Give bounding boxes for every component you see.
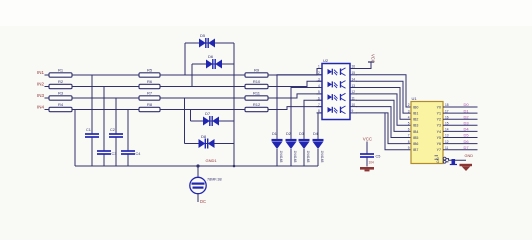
svg-text:D7: D7 bbox=[464, 145, 470, 150]
svg-text:R7: R7 bbox=[147, 90, 153, 95]
svg-text:Y4: Y4 bbox=[437, 130, 441, 134]
svg-text:Y2: Y2 bbox=[437, 118, 441, 122]
diode D6 bbox=[206, 60, 213, 69]
svg-text:14: 14 bbox=[352, 77, 356, 81]
wire loop right vertical bbox=[233, 43, 235, 166]
wire U2 pin10 to U1 bbox=[356, 107, 411, 138]
svg-text:IN2: IN2 bbox=[37, 82, 45, 87]
svg-text:IB0: IB0 bbox=[413, 105, 418, 109]
U1 right pin 11 bbox=[443, 149, 478, 151]
U1 right pin 18 bbox=[443, 106, 478, 108]
wire row1 seg2 bbox=[160, 74, 245, 76]
wire U1 row8 feed bbox=[385, 113, 411, 150]
resistor R2 bbox=[49, 84, 72, 88]
wire U2 pin12 to U1 bbox=[356, 94, 411, 125]
IC U1 body bbox=[411, 102, 443, 164]
svg-text:13: 13 bbox=[445, 134, 449, 138]
svg-text:C5: C5 bbox=[376, 155, 381, 159]
wire U2 pin9 to U1 bbox=[356, 113, 411, 144]
svg-text:12: 12 bbox=[352, 90, 356, 94]
capacitor C2 bbox=[109, 133, 123, 135]
svg-text:2: 2 bbox=[318, 71, 320, 75]
svg-text:D6: D6 bbox=[464, 139, 470, 144]
svg-text:9: 9 bbox=[408, 146, 410, 150]
U2 channel 2 symbol bbox=[328, 82, 333, 88]
wire rail left end drop bbox=[74, 110, 76, 167]
wire anode ch4 bbox=[268, 107, 322, 110]
svg-text:D1: D1 bbox=[464, 108, 470, 113]
ground right symbol bbox=[460, 164, 473, 166]
svg-text:5: 5 bbox=[408, 122, 410, 126]
wire U2 pin15 to U1 bbox=[356, 75, 411, 107]
svg-text:4: 4 bbox=[318, 84, 320, 88]
svg-text:Y6: Y6 bbox=[437, 142, 441, 146]
svg-text:Y5: Y5 bbox=[437, 136, 441, 140]
U1 right pin 12 bbox=[443, 143, 478, 145]
wire low loop upper bbox=[191, 120, 235, 122]
U1 right pin 16 bbox=[443, 118, 478, 120]
wire cathode ch3 bbox=[304, 100, 322, 139]
U2 right pin 12 bbox=[350, 93, 357, 95]
resistor R9 bbox=[245, 73, 268, 77]
svg-text:1N4148: 1N4148 bbox=[293, 151, 297, 163]
wire top loop left1 bbox=[184, 43, 186, 75]
wire row1 input stub bbox=[45, 74, 50, 76]
svg-text:D8: D8 bbox=[201, 134, 207, 139]
wire cathode ch1 bbox=[277, 75, 322, 140]
resistor R5 bbox=[139, 73, 160, 77]
diode D2 bbox=[286, 139, 297, 141]
svg-text:U1: U1 bbox=[412, 96, 418, 101]
U2 left pin 4 bbox=[317, 87, 323, 89]
svg-text:IN4: IN4 bbox=[37, 105, 45, 110]
svg-text:IB1: IB1 bbox=[413, 112, 418, 116]
svg-text:7: 7 bbox=[408, 134, 410, 138]
diode D1 bbox=[272, 139, 283, 141]
U2 left pin 1 bbox=[317, 68, 323, 70]
wire cathode ch4 bbox=[318, 113, 322, 140]
capacitor C3 bbox=[97, 150, 111, 152]
U2 right pin 9 bbox=[350, 112, 357, 114]
wire row3 input stub bbox=[45, 97, 50, 99]
svg-text:1: 1 bbox=[318, 65, 320, 69]
svg-text:8: 8 bbox=[318, 109, 320, 113]
diode D8 bbox=[199, 139, 206, 148]
svg-text:2: 2 bbox=[408, 103, 410, 107]
svg-text:7: 7 bbox=[318, 103, 320, 107]
wire row4 seg1 bbox=[72, 109, 139, 111]
svg-text:D3: D3 bbox=[464, 121, 470, 126]
op-amp U2 optocoupler block bbox=[322, 64, 350, 120]
U1 right pin 15 bbox=[443, 124, 478, 126]
wire U2 pin11 to U1 bbox=[356, 100, 411, 131]
U2 left pin 7 bbox=[317, 106, 323, 108]
svg-text:12: 12 bbox=[445, 140, 449, 144]
svg-text:4: 4 bbox=[408, 115, 410, 119]
svg-text:13: 13 bbox=[352, 84, 356, 88]
power VCC top bbox=[356, 62, 371, 69]
svg-text:IN3: IN3 bbox=[37, 93, 45, 98]
U2 left pin 3 bbox=[317, 80, 323, 82]
svg-text:D4: D4 bbox=[313, 132, 318, 136]
wire to C10 bbox=[197, 166, 199, 177]
svg-text:DC: DC bbox=[200, 199, 206, 204]
U1 right pin 17 bbox=[443, 112, 478, 114]
svg-text:R3: R3 bbox=[58, 90, 64, 95]
resistor R10 bbox=[245, 84, 268, 88]
wire top loop lower bbox=[192, 63, 234, 65]
resistor R7 bbox=[139, 96, 160, 100]
U2 right pin 11 bbox=[350, 99, 357, 101]
svg-text:C1: C1 bbox=[86, 128, 91, 132]
svg-text:18: 18 bbox=[445, 103, 449, 107]
svg-text:17: 17 bbox=[445, 109, 449, 113]
wire C10 bottom bbox=[197, 194, 199, 202]
svg-text:IB5: IB5 bbox=[413, 136, 418, 140]
wire diode D2 to rail bbox=[290, 149, 292, 166]
svg-text:R6: R6 bbox=[147, 79, 153, 84]
svg-text:10: 10 bbox=[352, 103, 356, 107]
U1 right pin 13 bbox=[443, 137, 478, 139]
wire row4 seg2 bbox=[160, 109, 245, 111]
svg-text:D1: D1 bbox=[272, 132, 277, 136]
wire diode D1 to rail bbox=[276, 149, 278, 166]
svg-text:D2: D2 bbox=[464, 114, 470, 119]
U2 channel 4 symbol bbox=[328, 107, 333, 113]
svg-text:6: 6 bbox=[318, 97, 320, 101]
svg-text:Y0: Y0 bbox=[437, 105, 441, 109]
svg-text:IB3: IB3 bbox=[413, 124, 418, 128]
svg-text:C2: C2 bbox=[110, 128, 115, 132]
svg-text:8: 8 bbox=[408, 140, 410, 144]
wire row2 input stub bbox=[45, 86, 50, 88]
wire diode D3 to rail bbox=[303, 149, 305, 166]
ground mid bbox=[360, 167, 374, 170]
svg-text:GND: GND bbox=[465, 154, 474, 158]
wire row3 seg1 bbox=[72, 97, 139, 99]
diode D5 bbox=[199, 39, 206, 48]
svg-text:14: 14 bbox=[445, 128, 449, 132]
svg-text:Y1: Y1 bbox=[437, 112, 441, 116]
svg-text:16: 16 bbox=[445, 115, 449, 119]
junction GND1 bbox=[196, 164, 199, 167]
U2 left pin 5 bbox=[317, 93, 323, 95]
U2 channel 1 symbol bbox=[328, 69, 333, 75]
svg-text:VCC: VCC bbox=[370, 54, 375, 63]
svg-text:D5: D5 bbox=[464, 133, 470, 138]
svg-text:16: 16 bbox=[352, 65, 356, 69]
wire anode ch3 bbox=[268, 94, 322, 98]
U2 right pin 10 bbox=[350, 106, 357, 108]
wire anode ch1 bbox=[268, 69, 322, 76]
svg-text:IB7: IB7 bbox=[413, 148, 418, 152]
diode D4 bbox=[313, 139, 324, 141]
wire row3 seg2 bbox=[160, 97, 245, 99]
wire anode ch2 bbox=[268, 81, 322, 86]
U1 right pin 14 bbox=[443, 130, 478, 132]
U2 right pin 13 bbox=[350, 87, 357, 89]
svg-text:R11: R11 bbox=[253, 90, 261, 95]
wire drop row1 bbox=[91, 75, 93, 134]
svg-text:78MF.38: 78MF.38 bbox=[207, 178, 222, 182]
wire U2 pin14 to U1 bbox=[356, 81, 411, 113]
U2 right pin 14 bbox=[350, 80, 357, 82]
wire VCC to C5 bbox=[366, 142, 368, 154]
svg-text:U2: U2 bbox=[323, 58, 329, 63]
svg-text:R2: R2 bbox=[58, 79, 64, 84]
wire row4 input stub bbox=[45, 109, 50, 111]
svg-text:Y7: Y7 bbox=[437, 148, 441, 152]
wire low loop left1 bbox=[190, 110, 192, 122]
wire row2 seg2 bbox=[160, 86, 245, 88]
U2 left pin 6 bbox=[317, 99, 323, 101]
U2 right pin 16 bbox=[350, 68, 357, 70]
svg-text:R8: R8 bbox=[147, 102, 153, 107]
svg-text:1N4148: 1N4148 bbox=[279, 151, 283, 163]
svg-text:1N4148: 1N4148 bbox=[320, 151, 324, 163]
svg-text:15: 15 bbox=[352, 71, 356, 75]
U2 left pin 2 bbox=[317, 74, 323, 76]
wire drop row4 bbox=[127, 110, 129, 152]
capacitor C8 small bbox=[452, 159, 456, 165]
svg-text:R12: R12 bbox=[253, 102, 261, 107]
resistor R6 bbox=[139, 84, 160, 88]
svg-text:11: 11 bbox=[445, 146, 449, 150]
svg-text:R1: R1 bbox=[58, 67, 64, 72]
wire cathode ch2 bbox=[291, 88, 322, 140]
svg-text:D4: D4 bbox=[464, 127, 470, 132]
wire C5 to gnd bbox=[366, 157, 368, 167]
svg-text:D6: D6 bbox=[208, 54, 214, 59]
U2 left pin 8 bbox=[317, 112, 323, 114]
svg-text:9: 9 bbox=[352, 109, 354, 113]
diode D7 bbox=[203, 117, 210, 126]
svg-text:3: 3 bbox=[318, 77, 320, 81]
U2 right pin 15 bbox=[350, 74, 357, 76]
capacitor C4 bbox=[121, 150, 135, 152]
resistor R11 bbox=[245, 96, 268, 100]
wire common rail bbox=[75, 165, 318, 167]
wire drop row3 bbox=[115, 98, 117, 134]
wire drop row2 bbox=[103, 87, 105, 152]
resistor R4 bbox=[49, 107, 72, 111]
svg-text:IB6: IB6 bbox=[413, 142, 418, 146]
wire row1 seg1 bbox=[72, 74, 139, 76]
svg-text:D7: D7 bbox=[205, 111, 211, 116]
wire top loop left2 bbox=[191, 64, 193, 87]
svg-text:11: 11 bbox=[352, 97, 356, 101]
svg-text:6: 6 bbox=[408, 128, 410, 132]
svg-text:GND1: GND1 bbox=[206, 158, 218, 163]
capacitor C10 electrolytic bbox=[190, 177, 206, 193]
svg-text:104: 104 bbox=[369, 161, 375, 165]
resistor R12 bbox=[245, 107, 268, 111]
wire OE to gnd bbox=[446, 159, 466, 161]
svg-text:D5: D5 bbox=[200, 33, 206, 38]
svg-text:Y3: Y3 bbox=[437, 124, 441, 128]
resistor R1 bbox=[49, 73, 72, 77]
wire diode D4 to rail bbox=[317, 149, 319, 166]
svg-text:VCC: VCC bbox=[363, 137, 372, 142]
svg-text:5: 5 bbox=[318, 90, 320, 94]
svg-text:IB2: IB2 bbox=[413, 118, 418, 122]
svg-text:1N4148: 1N4148 bbox=[306, 151, 310, 163]
capacitor C5 bbox=[360, 153, 374, 155]
resistor R3 bbox=[49, 96, 72, 100]
U2 channel 3 symbol bbox=[328, 94, 333, 100]
svg-text:15: 15 bbox=[445, 122, 449, 126]
svg-text:R9: R9 bbox=[254, 67, 260, 72]
diode D3 bbox=[299, 139, 310, 141]
wire low loop lower bbox=[185, 143, 235, 145]
svg-text:C4: C4 bbox=[136, 152, 141, 156]
wire U2 pin13 to U1 bbox=[356, 88, 411, 120]
wire low loop left2 bbox=[184, 98, 186, 144]
svg-text:R5: R5 bbox=[147, 67, 153, 72]
resistor R8 bbox=[139, 107, 160, 111]
svg-text:D2: D2 bbox=[286, 132, 291, 136]
svg-text:G: G bbox=[437, 160, 440, 164]
svg-text:R4: R4 bbox=[58, 102, 64, 107]
wire top loop upper bbox=[185, 42, 234, 44]
svg-text:D3: D3 bbox=[299, 132, 304, 136]
capacitor C1 bbox=[85, 133, 99, 135]
svg-text:3: 3 bbox=[408, 109, 410, 113]
svg-text:R10: R10 bbox=[253, 79, 261, 84]
svg-text:D0: D0 bbox=[464, 102, 470, 107]
wire row2 seg1 bbox=[72, 86, 139, 88]
svg-text:IN1: IN1 bbox=[37, 70, 45, 75]
svg-text:IB4: IB4 bbox=[413, 130, 418, 134]
